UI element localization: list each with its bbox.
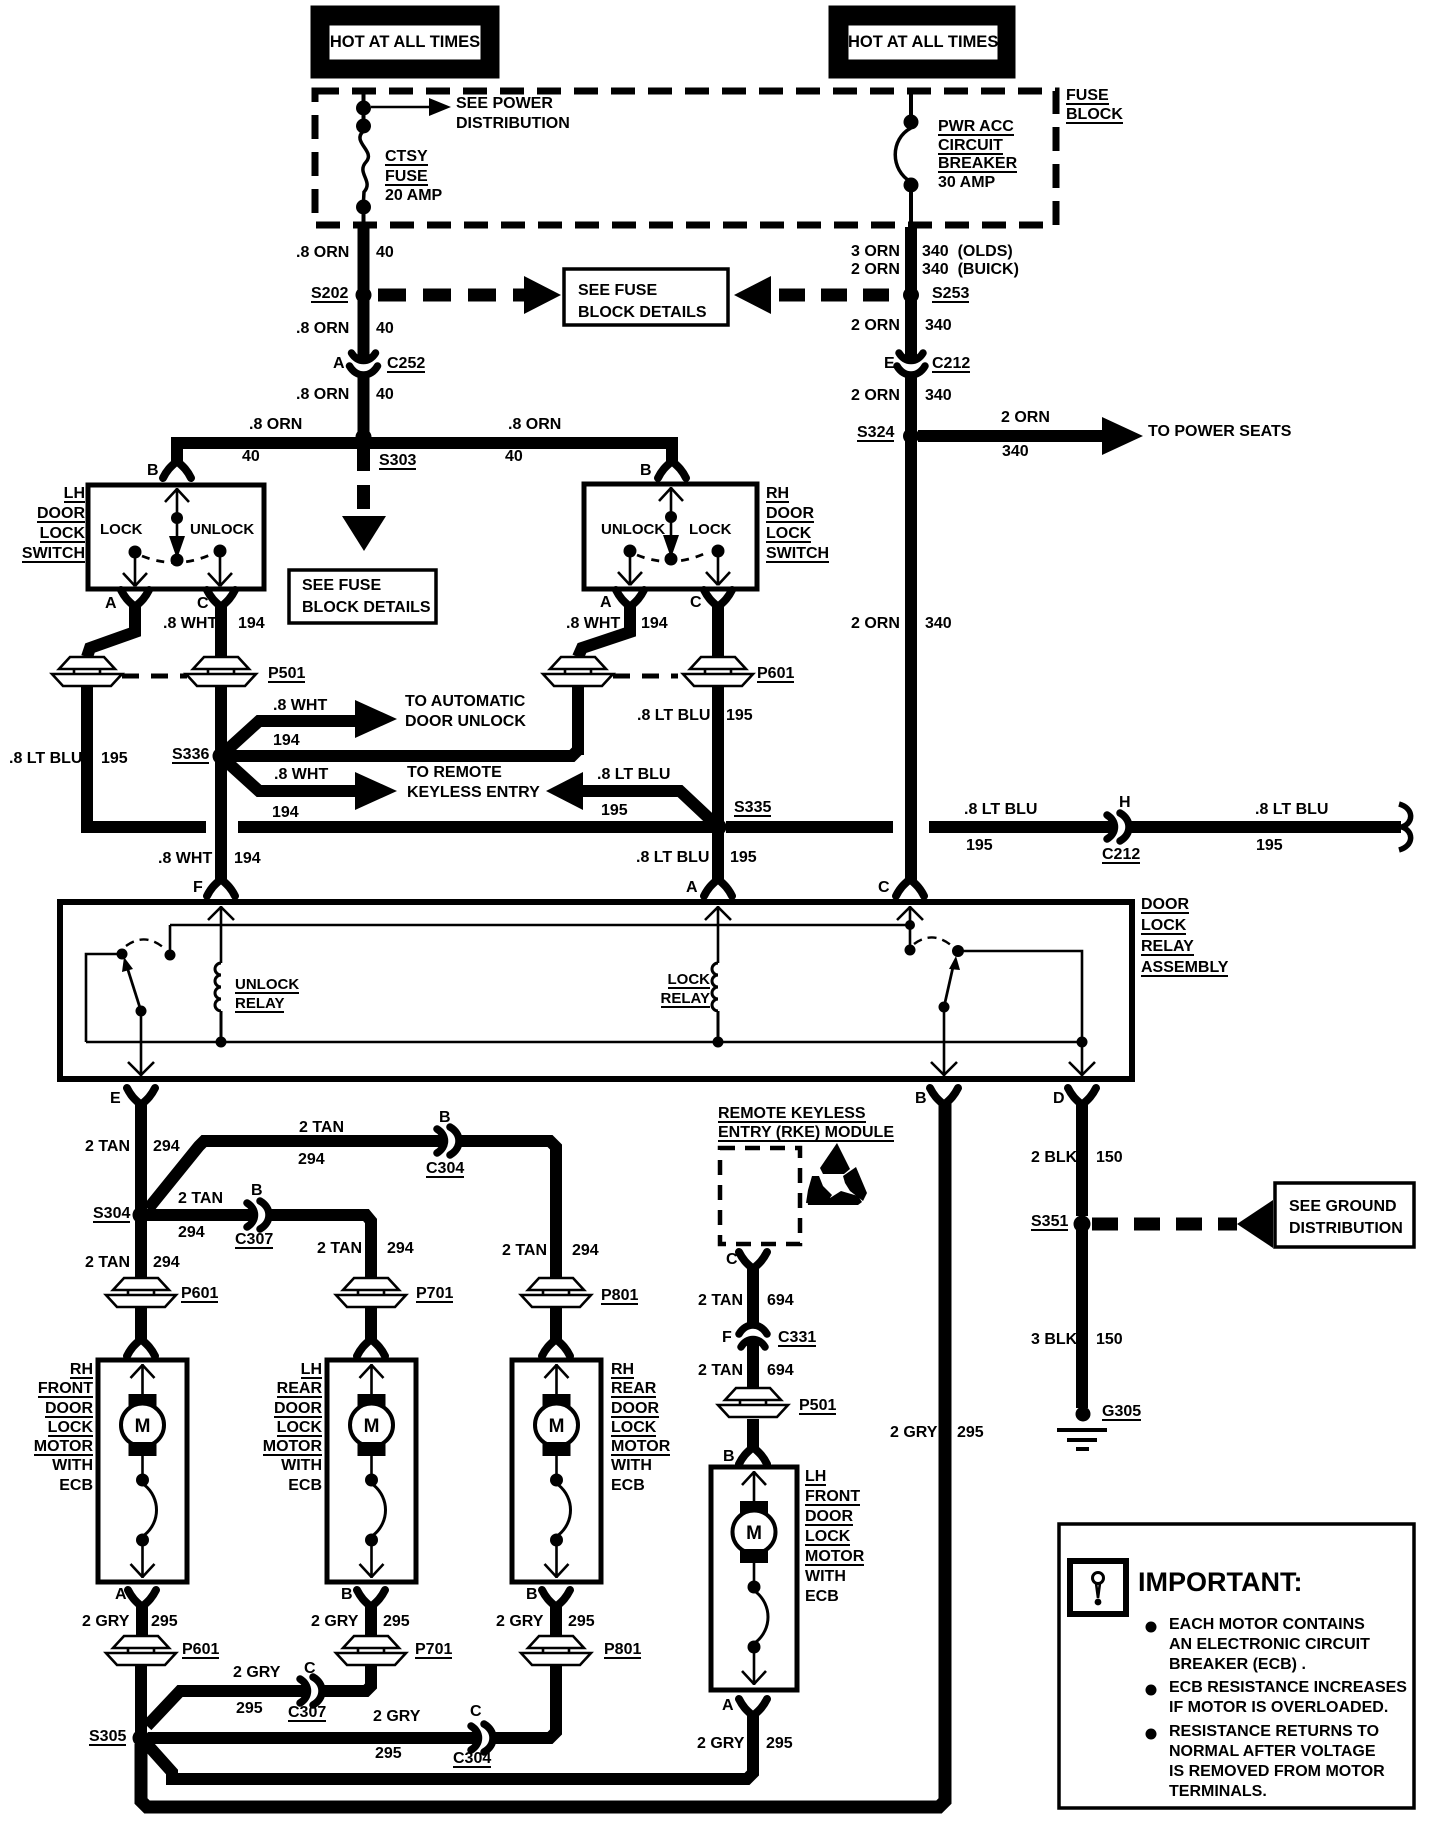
connector C307 pin C — [300, 1677, 322, 1705]
LH switch wiper dashed arc — [142, 554, 212, 563]
label FUSE BLOCK — [1066, 86, 1123, 124]
label 2 TAN 294 below S304 — [85, 1253, 130, 1273]
relay pin B arrow — [931, 1007, 957, 1076]
connector C252 pin A — [350, 353, 378, 375]
label .8 LT BLU 195 RH C wire — [637, 706, 710, 726]
wire: P801 lower to C304 run — [491, 1665, 556, 1738]
label .8 ORN 40 above S202 — [296, 243, 349, 263]
label 2 TAN 294 P701 — [317, 1239, 362, 1259]
splice S351 — [1074, 1216, 1091, 1233]
label 2 ORN 340 below S253 — [851, 316, 900, 336]
RH switch wiper dashed arc — [637, 553, 706, 562]
grommet P501 RKE — [718, 1388, 788, 1417]
label .8 ORN 40 branch left — [249, 415, 302, 435]
RH switch UNLOCK contact — [624, 545, 637, 558]
label PWR ACC CIRCUIT BREAKER 30 AMP — [938, 118, 1017, 192]
splice S253 — [903, 287, 919, 303]
fuse block dashed boundary — [315, 91, 1056, 225]
RH switch pivot node — [665, 511, 677, 523]
connector fork pin C of RH switch — [704, 590, 732, 607]
label S202 — [311, 284, 348, 304]
label 2 TAN 294 C304 run — [299, 1118, 344, 1138]
unlock switch input node — [117, 949, 128, 960]
grommet P701 upper — [336, 1278, 406, 1307]
wire: fuse to block edge — [362, 207, 366, 227]
label UNLOCK RELAY — [235, 975, 299, 1013]
HOT AT ALL TIMES box (right) — [829, 6, 1015, 78]
circuit breaker PWR ACC 30 AMP element — [895, 128, 911, 182]
wire: 2 GRY 295 C307 to S305 — [147, 1691, 308, 1726]
node: splice to power distribution — [356, 101, 371, 116]
connector C307 pin B — [247, 1201, 269, 1229]
RH switch LOCK contact — [712, 545, 725, 558]
wire: 2 TAN 694 C331 to P501 — [747, 1339, 759, 1388]
connector fork pin A of RH rear motor — [542, 1339, 570, 1356]
connector fork pin E below relay — [127, 1088, 155, 1105]
RH front door lock motor box — [98, 1360, 187, 1582]
splice S303 — [356, 429, 372, 445]
wire: PWR ACC breaker feed — [909, 92, 913, 122]
splice S304 — [133, 1207, 150, 1224]
splice S335 — [710, 819, 727, 836]
label SEE GROUND DISTRIBUTION — [1289, 1196, 1403, 1240]
relay pin E arrow — [128, 1011, 154, 1076]
label C C304 lower — [470, 1702, 482, 1722]
splice S202 — [356, 287, 372, 303]
label S303 — [379, 451, 416, 471]
label .8 LT BLU 195 above A — [636, 848, 709, 868]
RH switch pin B arrow — [659, 487, 683, 513]
connector C304 pin B — [437, 1127, 459, 1155]
connector fork pin F of relay assembly — [207, 879, 235, 896]
label 2 ORN 340 power seats — [1001, 408, 1050, 428]
relay internal bus lower — [86, 1041, 1082, 1044]
fuse CTSY 20 AMP element — [360, 131, 369, 201]
arrow from SEE GROUND DISTRIBUTION (points left) — [1237, 1200, 1273, 1248]
wire: dashed S202 to fuse block details — [378, 289, 524, 302]
label LOCK UNLOCK in LH switch — [100, 520, 143, 540]
label P501 RKE — [799, 1396, 836, 1416]
wire: 2 GRY 295 S305 to LH front motor — [146, 1713, 753, 1779]
label S304 — [93, 1204, 130, 1224]
LH switch UNLOCK contact — [214, 545, 227, 558]
arrow into SEE FUSE BLOCK DETAILS from right — [734, 276, 771, 314]
arrow from RKE lead (points left) — [546, 772, 583, 810]
label 2 ORN 340 BUICK — [851, 260, 900, 280]
wire: P601 lower to S305 — [135, 1665, 147, 1738]
label 3 ORN 340 OLDS — [851, 242, 900, 262]
wire: 2 TAN 694 RKE to C331 — [747, 1266, 759, 1327]
label S335 — [734, 798, 771, 818]
label bullet 2 — [1169, 1678, 1407, 1718]
wire: .8 LT BLU 195 RH switch C down — [712, 604, 724, 657]
label H C212 — [1119, 793, 1131, 813]
RH door lock switch box — [584, 484, 757, 589]
label .8 LT BLU 195 RKE lead — [597, 765, 670, 785]
label RH REAR DOOR LOCK MOTOR WITH ECB — [611, 1360, 670, 1495]
label .8 ORN 40 below S202 — [296, 319, 349, 339]
important icon — [1070, 1561, 1126, 1614]
connector fork pin B of LH front motor — [739, 1447, 767, 1464]
grommet P601 right half — [683, 657, 753, 686]
connector fork pin C of RKE module — [739, 1252, 767, 1269]
wire: .8 WHT 194 S336 to RH switch A — [228, 730, 578, 756]
lock switch arm — [944, 967, 953, 1007]
connector fork below LH rear motor — [357, 1590, 385, 1607]
wire: .8 ORN 40 branch to door lock switches — [177, 431, 672, 461]
wire: .8 LT BLU 195 RKE lead to S335 — [583, 791, 713, 822]
lock switch dashed arc — [914, 937, 952, 946]
label DOOR LOCK RELAY ASSEMBLY — [1141, 894, 1228, 978]
label TO POWER SEATS — [1148, 422, 1291, 442]
label .8 ORN 40 branch right — [508, 415, 561, 435]
wire: .8 LT BLU 195 main run to S335 — [238, 821, 712, 833]
label 2 TAN 294 pin E — [85, 1137, 130, 1157]
label 2 TAN 294 P801 — [502, 1241, 547, 1261]
wire: P501 to LH front motor — [747, 1419, 759, 1450]
arrow TO AUTOMATIC DOOR UNLOCK — [355, 700, 397, 738]
wire: 2 GRY 295 LH rear motor to P701 — [365, 1604, 377, 1640]
label 2 GRY 295 C307 return — [233, 1663, 280, 1683]
wire: .8 LT BLU 195 main run left of S336 — [94, 821, 206, 833]
connector C212 pin H — [1107, 813, 1129, 841]
label C C307 lower — [304, 1659, 316, 1679]
wire: LH A grommet to lower corner — [87, 686, 94, 833]
unlock switch arm — [128, 970, 141, 1011]
wire: 2 GRY 295 C304 to S305 — [148, 1732, 479, 1744]
relay pin C arrow — [897, 906, 923, 950]
LH switch pivot node — [171, 512, 183, 524]
wire: breaker to block edge — [909, 185, 913, 227]
label P501 — [268, 664, 305, 684]
label CTSY FUSE 20 AMP — [385, 147, 442, 206]
node: top of CTSY fuse — [356, 119, 371, 134]
connector C331 pin F — [739, 1325, 767, 1347]
label 2 GRY 295 relay B wire — [890, 1423, 937, 1443]
connector C212 pin E — [897, 353, 925, 375]
label 2 TAN 694 lower — [698, 1361, 743, 1381]
label REMOTE KEYLESS ENTRY RKE MODULE — [718, 1104, 894, 1142]
label C pin RKE — [726, 1250, 738, 1270]
wire: .8 ORN 40 from fuse block — [358, 227, 370, 361]
label .8 WHT 194 RH — [566, 614, 620, 634]
wire: see power distribution tap — [371, 106, 430, 109]
LH front door lock motor box — [711, 1467, 797, 1690]
RH switch actuator arrow — [670, 517, 673, 539]
label IMPORTANT heading — [1138, 1567, 1302, 1597]
connector fork pin A below LH front motor — [739, 1699, 767, 1716]
label LH REAR DOOR LOCK MOTOR WITH ECB — [237, 1360, 322, 1495]
label UNLOCK LOCK in RH switch — [601, 520, 665, 540]
SEE FUSE BLOCK DETAILS box (lower) — [289, 570, 436, 623]
label F C331 — [722, 1328, 732, 1348]
wire: RH C grommet down to S335 — [712, 686, 724, 880]
wire: 2 TAN 294 C307 to LH rear motor — [267, 1215, 371, 1280]
label A B B pins below motors — [115, 1585, 127, 1605]
relay pin D arrow — [1069, 1042, 1095, 1076]
relay pin F arrow — [208, 906, 234, 963]
label B pin LH switch — [147, 461, 159, 481]
wire: S336 branch to remote keyless entry — [226, 761, 357, 791]
HOT AT ALL TIMES box (left) — [311, 6, 499, 78]
lock switch fixed contact node — [952, 945, 964, 957]
label HOT AT ALL TIMES right — [848, 25, 998, 60]
wire: 3 BLK 150 S351 to G305 — [1076, 1230, 1088, 1408]
label P601 P701 P801 lower — [182, 1640, 219, 1660]
splice S324 — [903, 428, 919, 444]
lock switch arm node — [939, 1002, 950, 1013]
grommet P601 lower — [106, 1636, 176, 1665]
label 2 BLK 150 — [1031, 1148, 1077, 1168]
label A C pins LH switch — [105, 594, 117, 614]
grommet P501 right half — [186, 657, 256, 686]
unlock switch fixed contact node — [165, 950, 176, 961]
wire: P701 lower to C307 run — [320, 1665, 371, 1691]
LH door lock switch box — [88, 485, 264, 589]
dashed link between P601 grommets — [613, 674, 678, 679]
label F A C relay pins — [193, 878, 203, 898]
unlock relay coil — [215, 963, 221, 1042]
label .8 LT BLU 195 left — [9, 749, 82, 769]
junction node pin D to bus — [1077, 1037, 1088, 1048]
label SEE FUSE BLOCK DETAILS lower — [302, 575, 431, 619]
wire: dashed S253 to fuse block details — [779, 289, 903, 302]
grommet P801 upper — [521, 1278, 591, 1307]
label SEE FUSE BLOCK DETAILS upper — [578, 280, 707, 324]
label LOCK RELAY — [630, 970, 710, 1008]
label S324 — [857, 423, 894, 443]
label A pin below LH front motor — [722, 1696, 734, 1716]
label HOT AT ALL TIMES left — [329, 25, 481, 60]
label .8 ORN 40 below C252 — [296, 385, 349, 405]
label .8 LT BLU 195 right of C212 H — [1255, 800, 1328, 820]
label P601 — [757, 664, 794, 684]
label bullet 1 — [1169, 1615, 1370, 1675]
wire: 2 BLK 150 relay pin D to S351 — [1076, 1102, 1088, 1216]
connector fork pin A of relay assembly — [704, 879, 732, 896]
unlock switch arm node — [136, 1006, 147, 1017]
label E B D relay pins — [110, 1089, 121, 1109]
lock relay coil — [712, 963, 718, 1042]
label 2 TAN 694 upper — [698, 1291, 743, 1311]
LH switch pin B arrow — [165, 488, 189, 514]
label S305 — [89, 1727, 126, 1747]
grommet P601 upper — [106, 1278, 176, 1307]
label TO REMOTE KEYLESS ENTRY — [407, 763, 540, 803]
LH switch common node — [171, 554, 184, 567]
wire: RH switch A jog to grommet — [578, 604, 630, 657]
connector fork below RH rear motor — [542, 1590, 570, 1607]
label S253 — [932, 284, 969, 304]
relay internal bus upper — [170, 925, 908, 950]
wire: S335 to C212 pin H — [726, 821, 1115, 833]
wire: 2 ORN 340 to power seats — [918, 430, 1104, 442]
relay internal wire to unlock switch — [86, 954, 122, 1042]
wire: 2 GRY 295 RH rear motor to P801 — [550, 1604, 562, 1640]
node: top of circuit breaker — [904, 115, 919, 130]
wire: 2 GRY 295 S305 to relay pin B — [141, 1102, 945, 1807]
label 2 ORN 340 mid — [851, 614, 900, 634]
label B C307 — [251, 1181, 263, 1201]
label A C252 — [333, 354, 345, 374]
SEE GROUND DISTRIBUTION box — [1275, 1183, 1414, 1247]
wire: 2 TAN 294 S304 to C307 — [147, 1209, 255, 1221]
connector fork pin B of RH front motor — [127, 1339, 155, 1356]
wire: LH switch A to grommet — [87, 604, 135, 657]
wire: dashed S351 to ground distribution — [1092, 1218, 1237, 1231]
lock switch input node — [905, 945, 916, 956]
label .8 WHT 194 to auto unlock — [273, 696, 327, 716]
label S351 — [1031, 1212, 1068, 1232]
label LH FRONT DOOR LOCK MOTOR WITH ECB — [805, 1467, 864, 1607]
wire: RH A grommet down to S336 run — [572, 686, 584, 755]
wire: 3 ORN 340 from fuse block — [905, 227, 917, 361]
label E C212 — [884, 354, 895, 374]
label 2 ORN 340 below C212 — [851, 386, 900, 406]
arrow TO POWER SEATS — [1102, 417, 1143, 455]
junction node lock coil to bus — [713, 1037, 724, 1048]
connector fork pin B of RH switch — [658, 461, 686, 478]
wire: dashed S303 down — [357, 447, 370, 513]
relay internal wire lock switch to pin D — [958, 951, 1082, 1042]
label S336 — [172, 745, 209, 765]
label 2 TAN 294 C307 run — [178, 1189, 223, 1209]
wire: 2 ORN 340 below C212 — [905, 372, 917, 880]
connector fork pin C of relay assembly — [896, 879, 924, 896]
wire: 2 TAN 294 C304 to RH rear motor — [457, 1141, 556, 1280]
wire below P701 to fork — [365, 1308, 377, 1340]
wire below P601 to fork — [135, 1308, 147, 1340]
grommet P601 left half — [543, 657, 613, 686]
splice S305 — [133, 1730, 150, 1747]
junction node unlock coil to bus — [216, 1037, 227, 1048]
ground G305 — [1057, 1407, 1107, 1450]
connector fork pin A of LH switch — [121, 590, 149, 607]
node: bottom of circuit breaker — [904, 178, 919, 193]
relay pin A arrow — [705, 906, 731, 963]
grommet P801 lower — [521, 1636, 591, 1665]
arrow into SEE FUSE BLOCK DETAILS (left box) — [524, 276, 561, 314]
label G305 — [1102, 1402, 1141, 1422]
label A C pins RH switch — [600, 593, 612, 613]
wire below P801 to fork — [550, 1308, 562, 1340]
wire: 2 GRY 295 RH front motor to P601 — [136, 1604, 148, 1640]
label RH DOOR LOCK SWITCH — [766, 484, 829, 564]
connector fork pin D below relay — [1068, 1088, 1096, 1105]
wire: .8 ORN 40 below C252 — [358, 372, 370, 437]
lock switch feed node — [905, 920, 915, 930]
ESD sensitive device symbol — [806, 1143, 867, 1205]
wire: 2 TAN 294 S304 to P601 — [135, 1221, 147, 1280]
label 2 GRY 295 motor returns — [82, 1612, 129, 1632]
label P601 P701 P801 upper — [181, 1284, 218, 1304]
arrow to SEE POWER DISTRIBUTION — [429, 98, 451, 116]
arrow into SEE FUSE BLOCK DETAILS (lower box) — [342, 516, 386, 551]
bullet markers — [1146, 1622, 1157, 1740]
connector fork pin B below relay — [930, 1088, 958, 1105]
grommet P501 left half — [52, 657, 122, 686]
wire: 2 TAN 294 S304 to C304 — [148, 1141, 445, 1209]
label B pin LH front motor — [723, 1447, 735, 1467]
label .8 WHT 194 LH — [163, 614, 217, 634]
connector fork pin A of LH rear motor — [357, 1339, 385, 1356]
SEE FUSE BLOCK DETAILS box (upper) — [564, 269, 728, 325]
unlock switch dashed arc — [126, 939, 164, 948]
label 2 GRY 295 LH front return — [697, 1734, 744, 1754]
label .8 LT BLU 195 left of C212 H — [964, 800, 1037, 820]
label bullet 3 — [1169, 1722, 1385, 1802]
splice S336 — [213, 748, 230, 765]
RH rear door lock motor box — [512, 1360, 601, 1582]
wire: .8 LT BLU 195 C212 to harness — [1127, 821, 1401, 833]
label .8 WHT 194 above F — [158, 849, 212, 869]
connector C304 pin C — [471, 1724, 493, 1752]
label TO AUTOMATIC DOOR UNLOCK — [405, 692, 526, 732]
label SEE POWER DISTRIBUTION — [456, 94, 570, 134]
label LH DOOR LOCK SWITCH — [0, 484, 85, 564]
LH switch LOCK contact — [129, 546, 142, 559]
RH switch common node — [665, 553, 678, 566]
node: bottom of CTSY fuse — [356, 200, 371, 215]
door lock relay assembly box — [60, 902, 1132, 1079]
label 3 BLK 150 — [1031, 1330, 1077, 1350]
IMPORTANT note box — [1059, 1524, 1414, 1808]
label 2 GRY 295 C304 return — [373, 1707, 420, 1727]
label .8 WHT 194 to RKE — [274, 765, 328, 785]
dashed link between P501 grommets — [122, 674, 187, 679]
label RH FRONT DOOR LOCK MOTOR WITH ECB — [8, 1360, 93, 1495]
LH rear door lock motor box — [327, 1360, 416, 1582]
connector fork pin A of RH switch — [616, 590, 644, 607]
wire: S336 branch to automatic door unlock — [226, 721, 357, 751]
connector fork below RH front motor — [128, 1590, 156, 1607]
wire: .8 WHT 194 LH switch C down — [215, 604, 227, 657]
wire: LH C grommet to S336 and pin F — [215, 686, 227, 880]
arrow TO REMOTE KEYLESS ENTRY — [355, 772, 397, 810]
connector fork pin C of LH switch — [207, 590, 235, 607]
wire: CTSY fuse feed — [362, 92, 366, 133]
wire: 2 TAN 294 pin E to S304 — [135, 1102, 147, 1215]
label B pin RH switch — [640, 461, 652, 481]
remote keyless entry module dashed box — [720, 1148, 800, 1244]
LH switch actuator arrow — [176, 518, 179, 540]
label B C304 — [439, 1108, 451, 1128]
grommet P701 lower — [336, 1636, 406, 1665]
connector fork pin B of LH switch — [163, 461, 191, 478]
harness end curl — [1399, 804, 1411, 850]
